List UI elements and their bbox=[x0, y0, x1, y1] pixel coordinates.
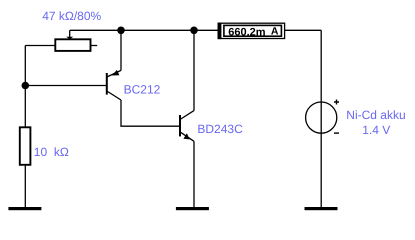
ground right bbox=[305, 207, 338, 210]
transistor Q2 BD243C (NPN) bbox=[180, 111, 194, 142]
node junction on left rail at BC212 base bbox=[22, 82, 30, 90]
svg-text:Ni-Cd akku: Ni-Cd akku bbox=[346, 108, 405, 122]
resistor R2 10k bbox=[20, 127, 31, 165]
svg-text:A: A bbox=[271, 26, 279, 38]
svg-text:10 kΩ: 10 kΩ bbox=[34, 145, 69, 159]
wire BD243C collector up to top bus bbox=[193, 30, 195, 110]
wire ammeter right to right rail corner bbox=[285, 29, 321, 31]
svg-text:BD243C: BD243C bbox=[197, 122, 243, 136]
svg-text:BC212: BC212 bbox=[124, 83, 161, 97]
ground left bbox=[8, 207, 41, 210]
svg-text:47 kΩ/80%: 47 kΩ/80% bbox=[42, 9, 101, 23]
ground middle bbox=[176, 207, 209, 210]
potentiometer R1 bbox=[25, 30, 97, 51]
wire BC212 emitter up to top bus bbox=[120, 30, 122, 70]
svg-text:660.2m: 660.2m bbox=[228, 27, 265, 39]
wire BD243C emitter down to ground bbox=[193, 141, 195, 207]
node junction on top bus at BD243C collector bbox=[190, 27, 198, 35]
wire right rail vertical through battery to ground bbox=[320, 30, 322, 207]
wire BC212 base wire from left rail junction bbox=[25, 85, 106, 87]
battery V1 Ni-Cd bbox=[306, 100, 339, 134]
wire left rail bottom segment (resistor to ground) bbox=[24, 165, 26, 208]
svg-text:1.4 V: 1.4 V bbox=[362, 123, 390, 137]
transistor Q1 BC212 (PNP) bbox=[107, 70, 121, 100]
wire left rail top segment (pot left lead corner down to resistor) bbox=[24, 46, 26, 128]
wire BC212 collector down and right to BD243C base bbox=[121, 100, 180, 126]
ammeter M1 bbox=[218, 23, 285, 39]
wire top bus from wiper to ammeter bbox=[70, 29, 218, 31]
node junction on top bus at BC212 emitter bbox=[117, 27, 125, 35]
